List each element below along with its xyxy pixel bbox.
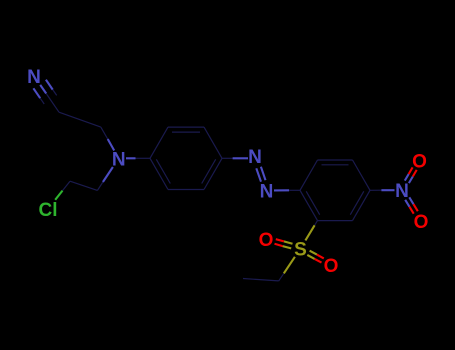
bond ring 2 to sulfonyl S xyxy=(305,221,317,241)
bond amine N to chloroethyl CH2 xyxy=(97,167,113,190)
bond nitrile C to CH2 xyxy=(59,112,101,127)
svg-text:N: N xyxy=(248,147,262,168)
svg-text:S: S xyxy=(294,240,307,261)
svg-text:O: O xyxy=(414,212,429,233)
bond ethyl CH2-CH3 xyxy=(243,279,279,281)
svg-text:N: N xyxy=(260,181,274,202)
nitro N=O double bond (top) xyxy=(405,167,417,183)
azo N=N double bond xyxy=(256,167,265,182)
bond S to ethyl CH2 xyxy=(279,257,295,281)
nitrile triple bond C#N xyxy=(33,80,59,113)
bond CH2-CH2 of chloroethyl xyxy=(70,181,97,190)
svg-text:O: O xyxy=(324,256,339,277)
svg-text:N: N xyxy=(395,181,409,202)
svg-text:Cl: Cl xyxy=(39,200,58,221)
bond amine N to ring 1 xyxy=(126,157,150,159)
nitro N=O double bond (bottom) xyxy=(405,197,418,213)
svg-text:O: O xyxy=(412,152,427,173)
sulfonyl S=O double bond (left) xyxy=(275,239,293,248)
svg-text:N: N xyxy=(112,149,126,170)
bond CH2 to amine N xyxy=(101,127,114,150)
sulfonyl S=O double bond (right) xyxy=(307,251,324,263)
bond CH2 to Cl xyxy=(55,181,70,200)
benzene ring 2 (nitro/sulfonyl ring) xyxy=(300,160,370,221)
bond ring 2 to nitro N xyxy=(370,189,395,191)
svg-text:N: N xyxy=(27,67,41,88)
bond azo N2 to ring 2 xyxy=(274,189,300,191)
benzene ring 1 (aniline ring) xyxy=(150,127,222,189)
svg-text:O: O xyxy=(259,230,274,251)
bond ring 1 to azo N1 xyxy=(222,157,248,159)
